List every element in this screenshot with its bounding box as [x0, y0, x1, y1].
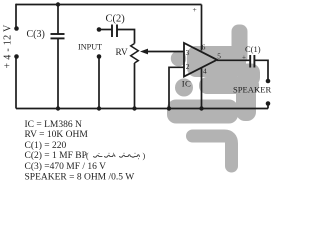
svg-text:4: 4: [203, 67, 207, 76]
wire input to C2: [99, 29, 112, 31]
svg-text:IC: IC: [182, 79, 191, 89]
watermark blob under C1: [238, 64, 260, 87]
svg-text:SPEAKER = 8 OHM /0.5 W: SPEAKER = 8 OHM /0.5 W: [25, 172, 135, 182]
svg-text:C(2): C(2): [106, 14, 126, 25]
wire speaker bottom to rail: [267, 104, 269, 109]
svg-text:SPEAKER: SPEAKER: [233, 84, 271, 94]
op-amp U1 LM386 triangle: [184, 43, 217, 77]
wire pin4 ground: [201, 68, 203, 109]
watermark seven-shape bottom right: [193, 136, 232, 166]
svg-text:RV = 10K OHM: RV = 10K OHM: [25, 130, 89, 140]
node C3 bottom junction: [56, 106, 60, 110]
svg-text:3: 3: [186, 48, 190, 57]
resistor RV zigzag: [131, 44, 139, 64]
wire bottom rail: [16, 108, 268, 110]
wire left rail lower: [15, 57, 17, 109]
svg-text:IC = LM386 N: IC = LM386 N: [25, 120, 82, 130]
svg-text:INPUT: INPUT: [78, 43, 102, 52]
node C3 top junction: [56, 2, 60, 6]
wire RV bottom to ground rail: [134, 63, 136, 109]
svg-text:): ): [143, 152, 146, 161]
svg-text:+ 4 - 12 V: + 4 - 12 V: [3, 24, 14, 68]
capacitor C1: [250, 55, 254, 68]
wire output to C1: [217, 59, 250, 61]
watermark blob top vertical bar: [232, 25, 248, 65]
node speaker bottom terminal: [266, 101, 271, 106]
node RV ground junction: [132, 106, 136, 110]
wiper arrowhead: [140, 49, 148, 55]
wire wiper pin3: [147, 51, 184, 53]
svg-text:C(2) = 1 MF BP: C(2) = 1 MF BP: [25, 150, 87, 161]
node input upper terminal: [97, 27, 102, 32]
note line 4 farsi annotation: [86, 152, 146, 161]
svg-text:2: 2: [186, 62, 190, 71]
svg-text:C(1) = 220: C(1) = 220: [25, 140, 67, 151]
watermark blob mid horizontal bar: [187, 46, 246, 77]
wire pin6 supply: [201, 5, 203, 51]
wire pin2: [169, 67, 184, 108]
node input lower terminal: [97, 54, 102, 59]
capacitor C3: [51, 34, 65, 38]
node pin2 ground junction: [167, 106, 171, 110]
wire C3 bottom stub: [57, 39, 59, 109]
node input ground junction: [97, 106, 101, 110]
battery terminal bottom node: [14, 54, 19, 59]
watermark circle at IC label: [175, 79, 193, 97]
svg-text:5: 5: [217, 52, 221, 61]
svg-text:C(3) =470 MF / 16 V: C(3) =470 MF / 16 V: [25, 161, 107, 172]
wire left rail upper: [15, 4, 17, 28]
watermark circle behind pin 3: [171, 51, 186, 66]
battery terminal top node: [14, 26, 19, 31]
svg-text:C(1): C(1): [245, 44, 261, 54]
svg-text:RV: RV: [116, 48, 128, 58]
svg-text:6: 6: [202, 42, 206, 51]
wire top rail: [16, 4, 202, 6]
wire C1 to speaker top: [255, 60, 268, 81]
node pin4 ground junction: [199, 106, 203, 110]
svg-text:(: (: [86, 152, 89, 161]
capacitor C2: [112, 25, 117, 38]
wire C2 to RV top: [117, 30, 134, 44]
svg-text:C(3): C(3): [27, 29, 45, 40]
watermark vertical bar below speaker: [236, 85, 256, 121]
wire input lower to ground rail: [98, 57, 100, 109]
node speaker top terminal: [266, 79, 271, 84]
watermark bar behind SPEAKER: [199, 77, 259, 94]
svg-text:+: +: [242, 53, 246, 61]
svg-text:+: +: [193, 5, 197, 14]
watermark slab behind bottom wire: [167, 100, 238, 124]
wire C3 top stub: [57, 5, 59, 35]
